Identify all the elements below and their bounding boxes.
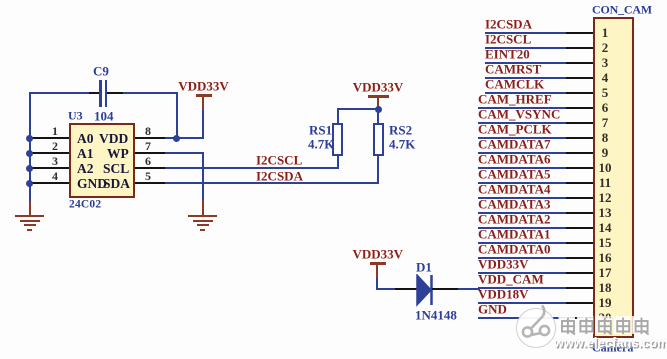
ground symbol (left, below U3 pins 1-4) bbox=[29, 183, 31, 201]
net label CAMCLK (CON_CAM pin 5) bbox=[485, 78, 544, 91]
wire: net CAMDATA1 to pin 15 bbox=[478, 242, 566, 244]
wire: net VDD18V to pin 19 bbox=[478, 302, 566, 304]
connector CON_CAM pin 17 stub bbox=[566, 272, 593, 274]
wire: net CAMRST to pin 4 bbox=[485, 77, 566, 79]
resistor RS1 designator bbox=[309, 124, 332, 137]
connector CON_CAM pin 20 stub bbox=[566, 317, 593, 319]
IC U3 pin 6 stub bbox=[135, 167, 165, 169]
IC U3 body bbox=[69, 123, 135, 198]
IC U3 pin name A0 bbox=[77, 132, 94, 146]
net label VDD_CAM (CON_CAM pin 18) bbox=[478, 273, 544, 286]
capacitor C9 right lead bbox=[107, 92, 123, 94]
wire: net CAMDATA4 to pin 12 bbox=[478, 197, 566, 199]
net label VDD18V (CON_CAM pin 19) bbox=[478, 288, 529, 301]
IC U3 pin name WP bbox=[107, 147, 129, 161]
net label I2CSCL (CON_CAM pin 2) bbox=[485, 33, 531, 46]
node: pin-8 junction bbox=[173, 135, 180, 142]
IC U3 pin name VDD bbox=[99, 132, 128, 146]
IC U3 pin 7 stub bbox=[135, 152, 165, 154]
wire: diode cathode to CON_CAM pin 18 bbox=[432, 288, 458, 290]
connector CON_CAM pin number 2 bbox=[596, 41, 614, 54]
IC U3 pin name A1 bbox=[77, 147, 94, 161]
net label I2CSDA (CON_CAM pin 1) bbox=[485, 18, 532, 31]
wire: pull-up rail RS1 to RS2 bbox=[337, 108, 380, 110]
wire: net VDD33V to pin 17 bbox=[478, 272, 566, 274]
resistor RS2 top lead bbox=[377, 110, 379, 123]
connector CON_CAM pin 2 stub bbox=[566, 47, 593, 49]
resistor RS1 value 4.7K bbox=[308, 137, 334, 150]
IC U3 pin name SDA bbox=[103, 177, 130, 191]
connector CON_CAM pin number 15 bbox=[596, 236, 614, 249]
connector CON_CAM pin 6 stub bbox=[566, 107, 593, 109]
wire: I2CSDA from U3 pin 5 to RS2 bbox=[165, 182, 379, 184]
wire: net CAM_PCLK to pin 8 bbox=[478, 137, 566, 139]
node: pull-up rail junction bbox=[375, 106, 382, 113]
IC U3 pin number 2 bbox=[0, 140, 115, 152]
IC U3 designator bbox=[68, 110, 83, 122]
net label CAMDATA4 (CON_CAM pin 12) bbox=[478, 183, 550, 196]
capacitor C9 value 104 bbox=[94, 110, 114, 123]
IC U3 pin number 3 bbox=[0, 155, 115, 167]
wire: net I2CSDA to pin 1 bbox=[485, 32, 566, 34]
wire: net EINT20 to pin 3 bbox=[485, 62, 566, 64]
connector CON_CAM pin number 20 bbox=[596, 311, 614, 324]
connector CON_CAM pin 19 stub bbox=[566, 302, 593, 304]
net label CAM_PCLK (CON_CAM pin 8) bbox=[478, 123, 552, 136]
ground symbol (centre, below U3 pin 7 net) bbox=[202, 200, 204, 216]
diode D1 value 1N4148 bbox=[415, 308, 457, 321]
wire: pin-8 node to VDD riser bbox=[177, 137, 204, 139]
connector CON_CAM pin number 7 bbox=[596, 116, 614, 129]
connector CON_CAM pin 11 stub bbox=[566, 182, 593, 184]
net label CAMDATA6 (CON_CAM pin 10) bbox=[478, 153, 550, 166]
wire: VDD33V stem bbox=[202, 95, 204, 110]
resistor RS1 bottom lead bbox=[337, 156, 339, 168]
connector CON_CAM pin number 8 bbox=[596, 131, 614, 144]
connector CON_CAM pin number 5 bbox=[596, 86, 614, 99]
wire: net CAM_HREF to pin 6 bbox=[478, 107, 566, 109]
net label CAM_HREF (CON_CAM pin 6) bbox=[478, 93, 552, 106]
wire: net VDD_CAM to pin 18 bbox=[478, 287, 566, 289]
IC U3 pin 3 stub bbox=[31, 167, 69, 169]
capacitor C9 plates bbox=[99, 80, 101, 107]
IC U3 pin 8 stub bbox=[135, 137, 165, 139]
connector CON_CAM pin number 19 bbox=[596, 296, 614, 309]
node: junction on left bus at pin 4 bbox=[26, 180, 33, 187]
capacitor C9 designator bbox=[93, 65, 109, 78]
connector CON_CAM pin 1 stub bbox=[566, 32, 593, 34]
net label CAMRST (CON_CAM pin 4) bbox=[485, 63, 541, 76]
net label CAMDATA7 (CON_CAM pin 9) bbox=[478, 138, 550, 151]
resistor RS2 body bbox=[373, 123, 384, 156]
connector CON_CAM pin 7 stub bbox=[566, 122, 593, 124]
net label CAMDATA0 (CON_CAM pin 16) bbox=[478, 243, 550, 256]
connector CON_CAM pin 5 stub bbox=[566, 92, 593, 94]
net label I2CSCL bbox=[256, 154, 302, 167]
wire: net CAMDATA7 to pin 9 bbox=[478, 152, 566, 154]
wire: net GND to pin 20 bbox=[478, 317, 566, 319]
wire: top rail left of C9 bbox=[29, 92, 90, 94]
IC U3 pin 5 stub bbox=[135, 182, 165, 184]
wire: net CAMCLK to pin 5 bbox=[485, 92, 566, 94]
connector CON_CAM pin 14 stub bbox=[566, 227, 593, 229]
connector CON_CAM designator bbox=[592, 4, 652, 16]
wire: net CAMDATA6 to pin 10 bbox=[478, 167, 566, 169]
connector CON_CAM pin number 1 bbox=[596, 26, 614, 39]
connector CON_CAM pin 10 stub bbox=[566, 167, 593, 169]
wire: drop from top rail to pin-8 node bbox=[176, 93, 178, 138]
IC U3 pin 4 stub bbox=[31, 182, 69, 184]
connector CON_CAM pin number 17 bbox=[596, 266, 614, 279]
connector CON_CAM body bbox=[593, 17, 634, 338]
connector CON_CAM pin 3 stub bbox=[566, 62, 593, 64]
connector CON_CAM pin 8 stub bbox=[566, 137, 593, 139]
wire: net CAM_VSYNC to pin 7 bbox=[478, 122, 566, 124]
connector CON_CAM pin number 11 bbox=[596, 176, 614, 189]
node: junction on left bus at pin 1 bbox=[26, 135, 33, 142]
resistor RS2 designator bbox=[389, 124, 412, 137]
connector CON_CAM pin 9 stub bbox=[566, 152, 593, 154]
connector CON_CAM pin number 12 bbox=[596, 191, 614, 204]
connector CON_CAM pin 18 stub bbox=[566, 287, 593, 289]
wire: VDD33V stem to pull-up rail bbox=[377, 96, 379, 109]
IC U3 pin name A2 bbox=[77, 162, 94, 176]
IC U3 pin name GND bbox=[77, 177, 107, 191]
connector CON_CAM pin number 16 bbox=[596, 251, 614, 264]
connector CON_CAM pin number 14 bbox=[596, 221, 614, 234]
net label CAMDATA5 (CON_CAM pin 11) bbox=[478, 168, 550, 181]
connector CON_CAM pin 4 stub bbox=[566, 77, 593, 79]
connector CON_CAM pin number 9 bbox=[596, 146, 614, 159]
net label GND (CON_CAM pin 20) bbox=[478, 303, 507, 316]
resistor RS2 value 4.7K bbox=[389, 137, 415, 150]
capacitor C9 left lead bbox=[89, 92, 100, 94]
net label CAMDATA2 (CON_CAM pin 14) bbox=[478, 213, 550, 226]
connector CON_CAM pin number 3 bbox=[596, 56, 614, 69]
IC U3 pin name SCL bbox=[103, 162, 129, 176]
wire: centre ground riser bbox=[202, 153, 204, 200]
wire: VDD33V to diode anode bbox=[376, 288, 395, 290]
power symbol VDD33V (diode branch) bbox=[370, 262, 386, 265]
connector CON_CAM pin 15 stub bbox=[566, 242, 593, 244]
net label VDD33V (CON_CAM pin 17) bbox=[478, 258, 529, 271]
wire: I2CSCL from U3 pin 6 to RS1 bbox=[165, 167, 339, 169]
IC U3 pin number 1 bbox=[0, 125, 115, 137]
diode D1 designator bbox=[416, 261, 432, 274]
wire: net I2CSCL to pin 2 bbox=[485, 47, 566, 49]
net label CAMDATA3 (CON_CAM pin 13) bbox=[478, 198, 550, 211]
connector CON_CAM pin number 18 bbox=[596, 281, 614, 294]
wire: net CAMDATA0 to pin 16 bbox=[478, 257, 566, 259]
connector CON_CAM pin number 4 bbox=[596, 71, 614, 84]
IC U3 pin number 6 bbox=[88, 155, 208, 167]
wire: net CAMDATA2 to pin 14 bbox=[478, 227, 566, 229]
connector CON_CAM pin 16 stub bbox=[566, 257, 593, 259]
resistor RS1 body bbox=[332, 123, 343, 156]
IC U3 pin 1 stub bbox=[31, 137, 69, 139]
connector CON_CAM pin number 13 bbox=[596, 206, 614, 219]
wire: VDD33V stem (diode branch) bbox=[376, 263, 378, 278]
diode D1 symbol bbox=[414, 274, 436, 308]
IC U3 pin number 5 bbox=[88, 170, 208, 182]
wire: pin7 to centre ground riser bbox=[165, 152, 204, 154]
net label I2CSDA bbox=[256, 169, 303, 182]
IC U3 pin number 8 bbox=[88, 125, 208, 137]
net label EINT20 (CON_CAM pin 3) bbox=[485, 48, 530, 61]
connector CON_CAM pin 12 stub bbox=[566, 197, 593, 199]
net label CAM_VSYNC (CON_CAM pin 7) bbox=[478, 108, 560, 121]
wire: net CAMDATA5 to pin 11 bbox=[478, 182, 566, 184]
net label CAMDATA1 (CON_CAM pin 15) bbox=[478, 228, 550, 241]
IC U3 pin number 4 bbox=[0, 170, 115, 182]
power symbol VDD33V (over resistors) bbox=[368, 95, 389, 98]
power symbol VDD33V (over U3) bbox=[196, 94, 212, 97]
connector CON_CAM part note Camera bbox=[592, 342, 633, 354]
connector CON_CAM pin 13 stub bbox=[566, 212, 593, 214]
IC U3 pin number 7 bbox=[88, 140, 208, 152]
node: junction on left bus at pin 3 bbox=[26, 165, 33, 172]
resistor RS1 top lead bbox=[337, 108, 339, 123]
IC U3 pin 2 stub bbox=[31, 152, 69, 154]
watermark bbox=[470, 295, 667, 359]
node: junction on left bus at pin 2 bbox=[26, 150, 33, 157]
wire: top rail right of C9 bbox=[123, 92, 178, 94]
resistor RS2 bottom lead bbox=[377, 156, 379, 183]
wire: net CAMDATA3 to pin 13 bbox=[478, 212, 566, 214]
IC U3 value 24C02 bbox=[69, 200, 101, 212]
connector CON_CAM pin number 10 bbox=[596, 161, 614, 174]
wire: left vertical bus x=29 from top rail to ground bbox=[29, 92, 31, 201]
connector CON_CAM pin number 6 bbox=[596, 101, 614, 114]
